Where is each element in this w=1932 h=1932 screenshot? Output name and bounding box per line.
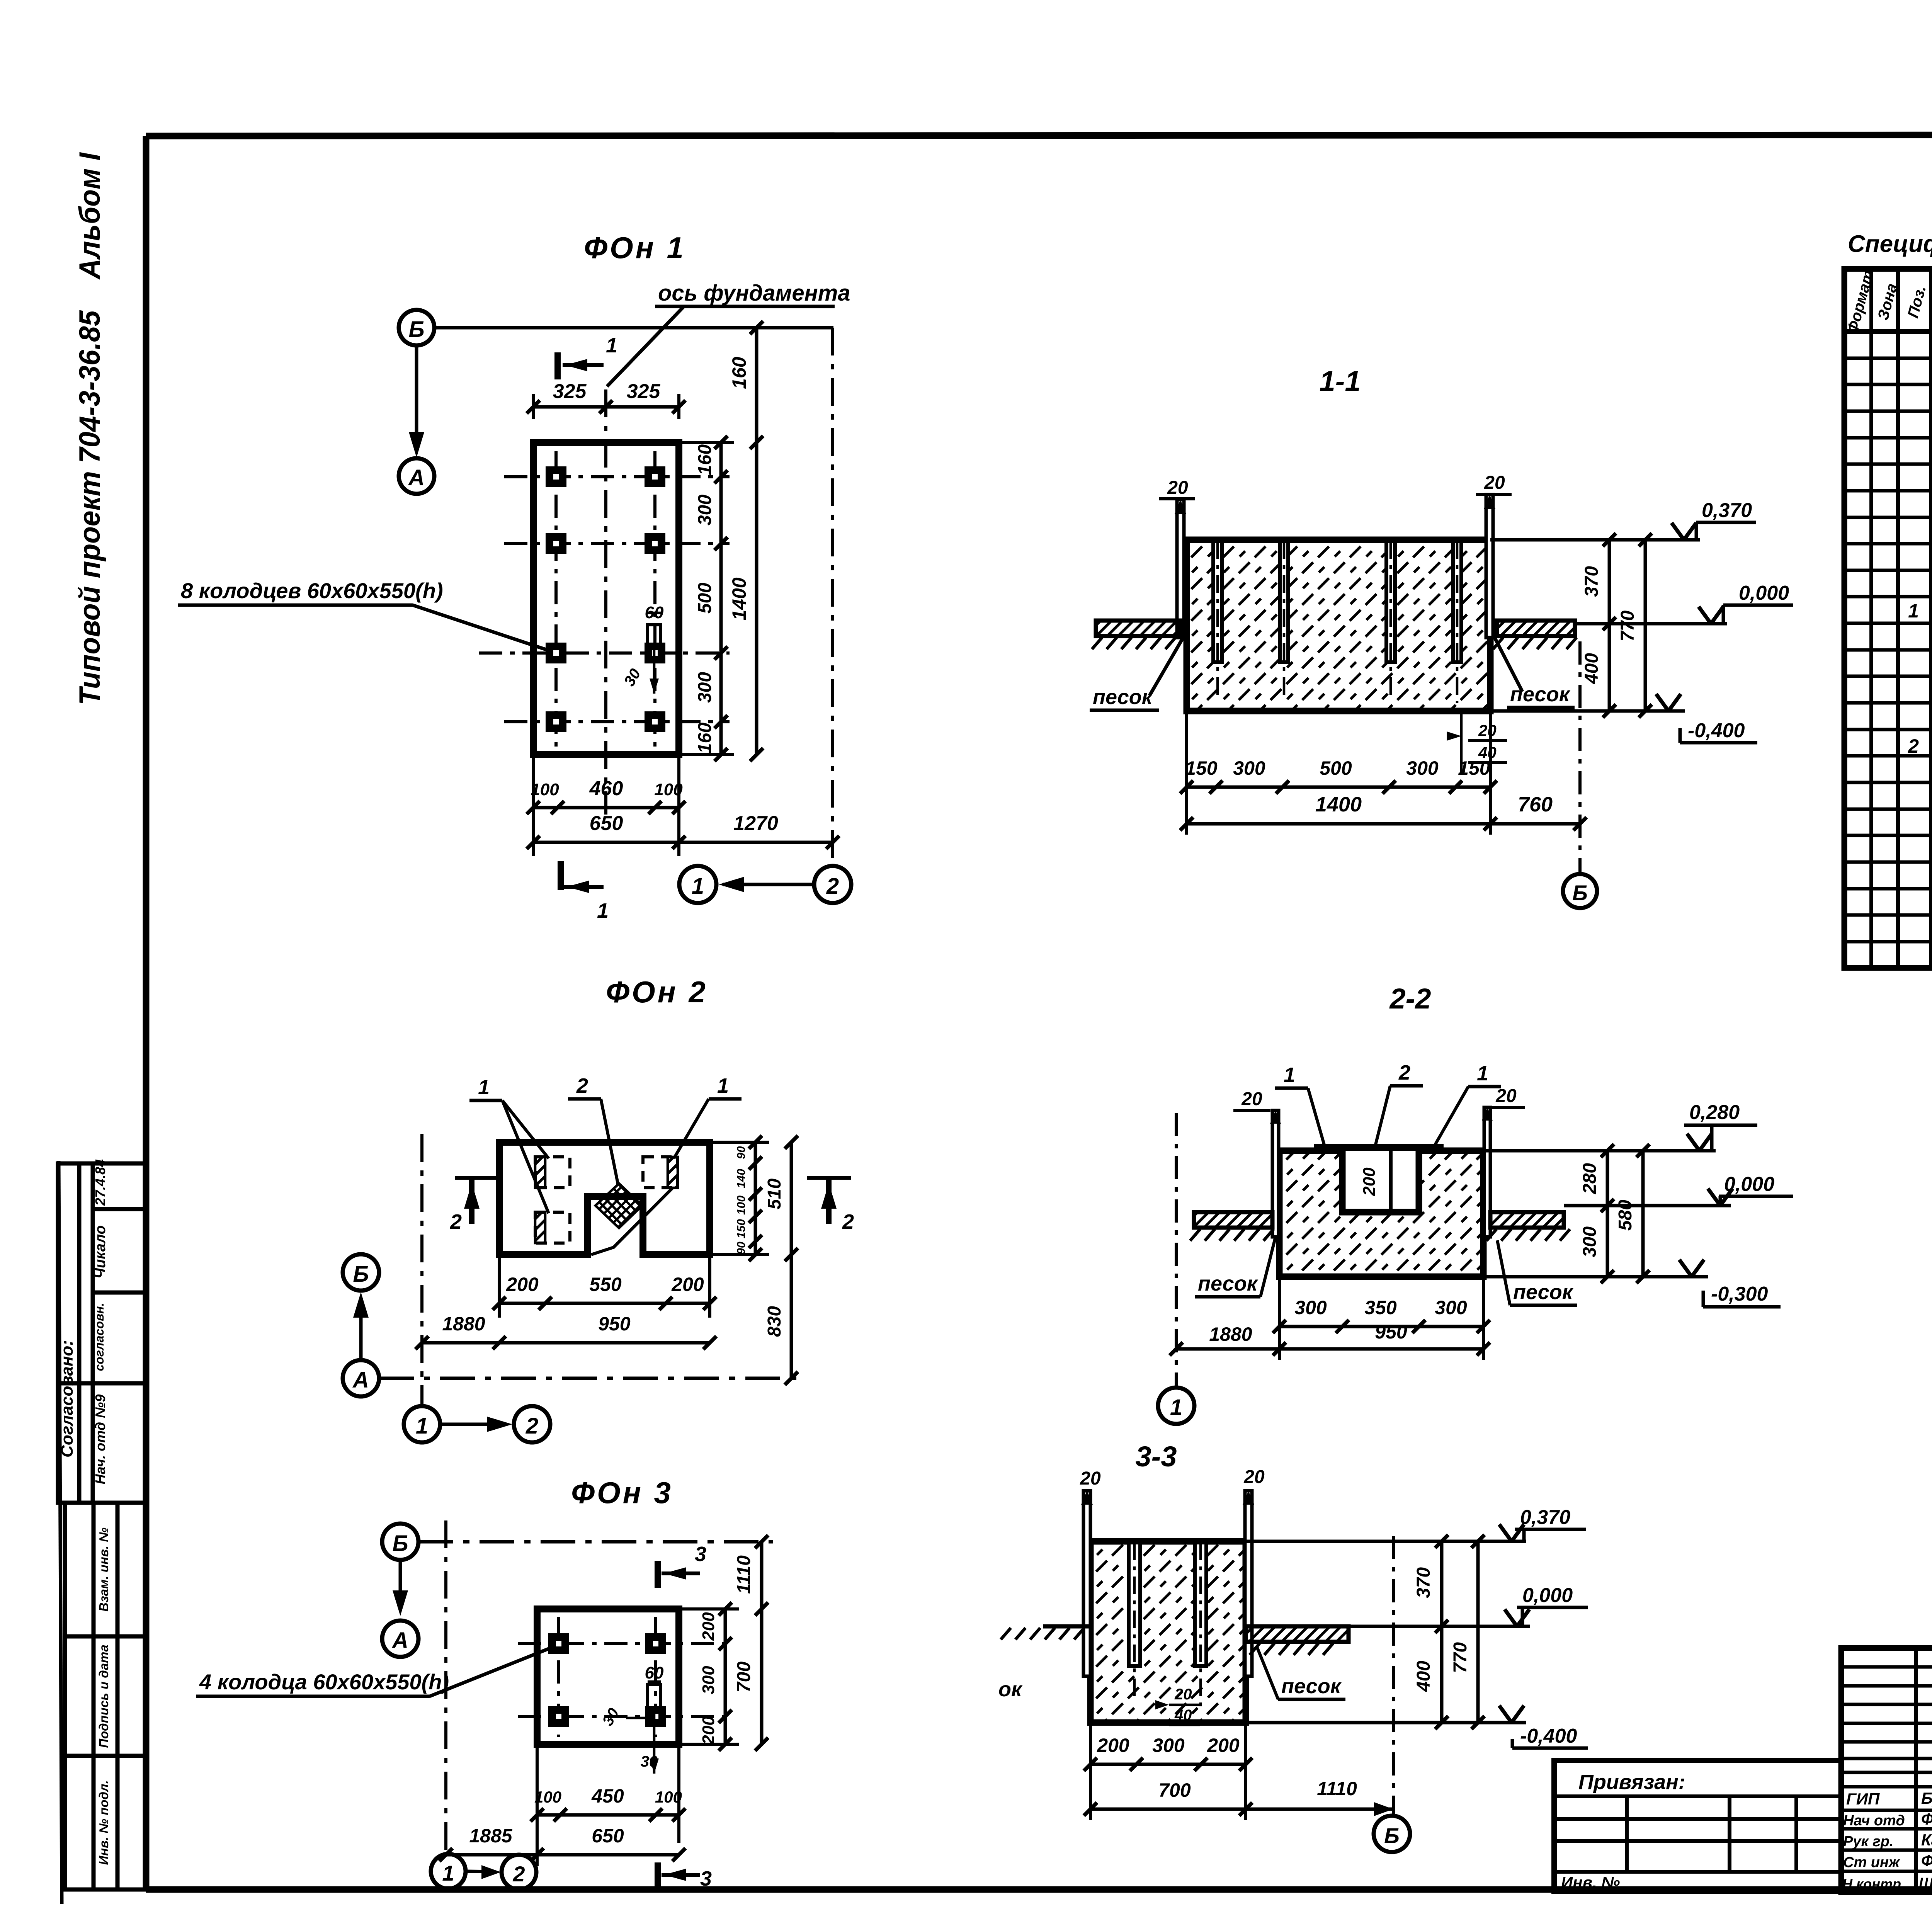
right outer dim chain 160/1400: [755, 328, 759, 755]
svg-text:Согласовано:: Согласовано:: [58, 1340, 77, 1458]
svg-text:Рук гр.: Рук гр.: [1843, 1833, 1893, 1850]
svg-text:2-2: 2-2: [1389, 983, 1431, 1015]
svg-text:140: 140: [735, 1169, 748, 1188]
svg-text:2: 2: [512, 1862, 525, 1886]
svg-text:300: 300: [1233, 757, 1265, 779]
svg-text:2: 2: [450, 1210, 462, 1233]
svg-text:Инв. №: Инв. №: [1561, 1873, 1620, 1891]
left ground platform slab: [1194, 1212, 1272, 1228]
svg-text:Ст инж: Ст инж: [1843, 1854, 1900, 1871]
axis circle 2: [502, 1855, 536, 1889]
svg-text:280: 280: [1580, 1163, 1600, 1194]
svg-text:0,370: 0,370: [1520, 1506, 1570, 1529]
svg-text:ФОн 1: ФОн 1: [584, 231, 686, 265]
level line 0.000: [1349, 1625, 1530, 1628]
bottom dim 1880/950: [1176, 1347, 1483, 1351]
spec table grid: [1844, 269, 1932, 968]
left embedded pin: [1272, 1111, 1279, 1237]
svg-text:песок: песок: [1281, 1675, 1342, 1698]
axis circle 1: [404, 1406, 440, 1442]
svg-text:150: 150: [735, 1219, 748, 1238]
bottom dim 650/1270: [533, 841, 833, 844]
right embedded pin: [1245, 1491, 1252, 1676]
axis B horizontal dash-dot: [418, 1540, 773, 1544]
svg-text:1: 1: [1284, 1063, 1295, 1087]
right ground platform slab: [1490, 1212, 1564, 1228]
svg-text:ок: ок: [998, 1678, 1023, 1701]
dims 1880/950: [422, 1341, 710, 1345]
svg-text:100: 100: [735, 1196, 748, 1215]
svg-text:Б: Б: [392, 1531, 408, 1556]
svg-text:370: 370: [1413, 1567, 1434, 1598]
svg-text:ось фундамента: ось фундамента: [658, 281, 850, 306]
svg-text:950: 950: [598, 1313, 631, 1335]
svg-text:Б: Б: [408, 317, 424, 342]
left ground platform slab: [1096, 621, 1180, 636]
svg-text:200: 200: [1360, 1167, 1379, 1196]
svg-text:ФОн 3: ФОн 3: [571, 1476, 673, 1510]
svg-text:А: А: [391, 1628, 408, 1653]
svg-text:1110: 1110: [1317, 1778, 1357, 1799]
svg-text:1-1: 1-1: [1320, 365, 1361, 397]
axis B dash-dot and circle: [1392, 1536, 1395, 1815]
section mark 2 right: [807, 1176, 851, 1180]
arrow from 2 to 1: [723, 883, 814, 886]
svg-text:0,000: 0,000: [1522, 1584, 1573, 1607]
vertical dim chain 280/300: [1606, 1151, 1609, 1277]
concrete block hatched: [1187, 540, 1490, 711]
svg-text:200: 200: [699, 1612, 718, 1641]
svg-text:325: 325: [553, 380, 587, 403]
svg-text:550: 550: [589, 1274, 622, 1295]
svg-text:3: 3: [700, 1867, 712, 1890]
svg-text:300: 300: [695, 672, 715, 703]
level line 0.000: [1564, 1204, 1731, 1207]
svg-text:Типовой проект 704-3-36.85: Типовой проект 704-3-36.85 Альбом I: [73, 152, 106, 705]
level line 0.280: [1483, 1149, 1716, 1153]
right inner dim chain 160/300/500/300/160: [719, 442, 723, 755]
vertical dim chain 580: [1641, 1151, 1645, 1277]
svg-text:0,000: 0,000: [1739, 582, 1789, 604]
svg-text:песок: песок: [1510, 683, 1571, 706]
privyazan box: [1554, 1760, 1841, 1891]
svg-text:400: 400: [1413, 1661, 1434, 1692]
staff grid verticals: [1916, 1648, 1932, 1892]
svg-text:4 колодца 60х60х550(h): 4 колодца 60х60х550(h): [199, 1670, 449, 1694]
svg-text:400: 400: [1582, 653, 1602, 684]
level line -0.400: [1246, 1721, 1526, 1725]
svg-text:200: 200: [699, 1716, 718, 1745]
axis circle A: [343, 1360, 379, 1396]
svg-text:100: 100: [534, 1788, 561, 1806]
svg-text:ГИП: ГИП: [1846, 1790, 1880, 1808]
svg-text:90: 90: [735, 1146, 748, 1159]
svg-text:1400: 1400: [1315, 793, 1362, 816]
arrow from A up to B: [359, 1298, 363, 1360]
8 wells (black squares): [546, 466, 665, 732]
bottom dim 300/350/300: [1278, 1277, 1281, 1360]
svg-text:3: 3: [695, 1543, 706, 1566]
svg-text:150: 150: [1185, 757, 1218, 779]
svg-text:Подпись и дата: Подпись и дата: [97, 1645, 111, 1748]
svg-text:Бухаров: Бухаров: [1921, 1789, 1932, 1807]
right embedded pin: [1484, 1107, 1490, 1237]
svg-text:Нач. отд №9: Нач. отд №9: [92, 1395, 108, 1485]
4 wells: [548, 1633, 666, 1727]
axis circle 1: [431, 1854, 466, 1889]
svg-text:325: 325: [627, 380, 661, 403]
vertical dim chain 770: [1476, 1541, 1480, 1723]
svg-text:1: 1: [442, 1861, 454, 1885]
section mark 1 top: [554, 352, 561, 379]
svg-text:200: 200: [1097, 1735, 1129, 1756]
title block outer: [1841, 1648, 1932, 1892]
svg-text:песок: песок: [1093, 685, 1153, 709]
arrow from B down to A: [399, 1560, 402, 1609]
svg-text:760: 760: [1518, 793, 1553, 816]
svg-text:1880: 1880: [442, 1313, 485, 1335]
svg-text:0,280: 0,280: [1689, 1101, 1740, 1124]
left embedded pin: [1083, 1491, 1090, 1676]
svg-text:770: 770: [1617, 611, 1638, 641]
axis circle B: [382, 1524, 418, 1560]
cross-hatched pad center: [595, 1184, 642, 1228]
leader to axis: [607, 306, 684, 386]
svg-text:300: 300: [1580, 1226, 1600, 1257]
svg-text:1110: 1110: [734, 1555, 754, 1594]
axis circle B: [399, 310, 434, 345]
left anchor opening upper (dashed): [535, 1157, 570, 1188]
foundation plan outline FOn1: [533, 442, 679, 755]
svg-text:90: 90: [735, 1242, 748, 1255]
right inner dim chain 200/300/200: [724, 1609, 727, 1744]
svg-text:20: 20: [1484, 473, 1505, 493]
staff names: [1842, 1789, 1932, 1892]
bottom dim 100/450/100: [536, 1744, 539, 1866]
svg-text:100: 100: [655, 1788, 682, 1806]
svg-text:1270: 1270: [733, 812, 778, 835]
level line -0.400: [1490, 709, 1685, 713]
well dash-dot lines: [518, 1617, 734, 1737]
right outer dim chain 510/830: [790, 1142, 793, 1378]
svg-text:20: 20: [1495, 1086, 1517, 1106]
svg-text:А: А: [352, 1367, 369, 1393]
svg-text:150: 150: [1458, 757, 1490, 779]
svg-text:450: 450: [591, 1785, 624, 1807]
svg-text:ФОн 2: ФОн 2: [606, 975, 708, 1009]
svg-text:8 колодцев 60х60х550(h): 8 колодцев 60х60х550(h): [181, 578, 443, 603]
svg-text:1880: 1880: [1209, 1323, 1252, 1345]
svg-text:2: 2: [826, 874, 839, 899]
left stamp upper box rotated labels: [58, 1159, 109, 1484]
concrete block hatched: [1090, 1541, 1246, 1723]
top dimension 325+325: [533, 405, 679, 409]
axis 1 vertical dash-dot: [444, 1520, 447, 1851]
svg-text:160: 160: [695, 444, 715, 475]
vertical dim chain 770: [1644, 540, 1647, 711]
svg-text:770: 770: [1450, 1642, 1471, 1673]
axis circle A: [382, 1621, 418, 1657]
svg-text:1: 1: [1908, 600, 1919, 622]
svg-text:100: 100: [654, 780, 683, 799]
arrow from 1 to 2: [466, 1871, 495, 1872]
svg-text:Б: Б: [1384, 1823, 1400, 1848]
svg-text:300: 300: [1435, 1297, 1467, 1318]
small dims 20/40 at block bottom: [1460, 711, 1463, 773]
well slots: [1129, 1543, 1206, 1666]
bottom dim 200/300/200: [1089, 1723, 1092, 1820]
svg-text:200: 200: [1207, 1735, 1240, 1756]
svg-text:Штамбург: Штамбург: [1919, 1875, 1932, 1891]
left embedded pin: [1177, 500, 1184, 638]
svg-text:Б: Б: [353, 1262, 369, 1287]
svg-text:Спецификация фундаментов под о: Спецификация фундаментов под оборудовани…: [1848, 231, 1932, 257]
svg-text:1: 1: [478, 1076, 490, 1099]
svg-text:370: 370: [1582, 566, 1602, 597]
svg-text:1885: 1885: [469, 1825, 512, 1847]
svg-text:60: 60: [645, 1663, 664, 1682]
section mark 2 left: [455, 1176, 499, 1180]
left ground ledge: [1043, 1624, 1090, 1629]
section mark 1 bottom: [558, 861, 564, 890]
axis 1 vertical dash-dot: [420, 1134, 423, 1405]
left trench slope: [1150, 638, 1183, 696]
level line 0.370: [1246, 1540, 1526, 1543]
svg-text:700: 700: [1158, 1779, 1191, 1801]
svg-text:2: 2: [576, 1074, 588, 1097]
axis A horizontal dash-dot: [379, 1377, 803, 1380]
notch inner vertical line: [1389, 1151, 1393, 1212]
axis 2 vertical dash-dot: [831, 328, 834, 865]
svg-text:0,370: 0,370: [1702, 499, 1752, 522]
svg-text:Нач отд: Нач отд: [1843, 1813, 1905, 1829]
well row dash-dot lines: [479, 477, 730, 722]
foundation axis centerline (os fundamenta): [604, 389, 607, 815]
svg-text:950: 950: [1375, 1321, 1407, 1343]
svg-text:1: 1: [692, 874, 704, 899]
svg-text:Взам. инв. №: Взам. инв. №: [97, 1527, 111, 1612]
arrow from B down to A: [415, 346, 418, 451]
bottom dim 700/1110: [1090, 1808, 1393, 1811]
svg-text:300: 300: [1406, 757, 1439, 779]
axis circle 1 bottom: [679, 866, 716, 903]
svg-text:2: 2: [1908, 735, 1919, 757]
svg-text:2: 2: [842, 1210, 854, 1233]
svg-text:0,000: 0,000: [1724, 1173, 1774, 1196]
svg-text:200: 200: [506, 1274, 539, 1295]
svg-text:510: 510: [764, 1179, 785, 1209]
well column dash-dot lines: [554, 451, 558, 748]
axis 1 dash-dot and circle: [1175, 1113, 1178, 1387]
svg-text:20: 20: [1174, 1686, 1192, 1703]
bottom dim chain 1400/760: [1187, 822, 1580, 826]
bottom dim chain 150/300/500/300/150: [1185, 711, 1188, 835]
svg-text:300: 300: [1294, 1297, 1327, 1318]
foundation outline FOn2 with notch: [499, 1142, 710, 1255]
svg-text:700: 700: [734, 1662, 754, 1692]
left sheet trim edge line: [59, 1161, 62, 1904]
svg-text:20: 20: [1167, 478, 1188, 498]
svg-text:300: 300: [1152, 1735, 1185, 1756]
svg-text:А: А: [408, 465, 425, 490]
svg-text:-0,400: -0,400: [1520, 1725, 1577, 1747]
section mark 3 top: [655, 1561, 661, 1588]
level line -0.300: [1483, 1275, 1708, 1279]
svg-text:песок: песок: [1513, 1281, 1574, 1304]
level line 0.000: [1575, 622, 1727, 626]
axis circle 2 bottom: [814, 866, 851, 903]
leader polyline to lower right anchor: [591, 1188, 672, 1255]
vertical dim chain 370/400: [1440, 1541, 1444, 1723]
staff grid thin rows: [1841, 1667, 1932, 1871]
svg-text:1: 1: [1170, 1395, 1182, 1420]
svg-text:1: 1: [416, 1413, 428, 1439]
well slots in section: [1213, 541, 1461, 662]
svg-text:1: 1: [1477, 1062, 1488, 1085]
svg-text:20: 20: [1478, 721, 1497, 740]
svg-text:650: 650: [592, 1825, 624, 1847]
axis circle 2: [514, 1406, 550, 1442]
svg-text:Калинин: Калинин: [1921, 1831, 1932, 1849]
left stamp upper box: [58, 1163, 146, 1503]
svg-text:2: 2: [1398, 1061, 1410, 1084]
svg-text:-0,400: -0,400: [1688, 719, 1745, 742]
right ground platform slab: [1497, 621, 1575, 636]
slot centerlines dash-dot: [1218, 541, 1457, 703]
left stamp lower box: [65, 1503, 146, 1889]
svg-text:580: 580: [1615, 1200, 1636, 1231]
svg-text:Фролов: Фролов: [1921, 1852, 1932, 1870]
svg-text:согласовн.: согласовн.: [92, 1303, 106, 1371]
svg-text:Фрид: Фрид: [1921, 1810, 1932, 1828]
concrete block hatched with notch: [1279, 1151, 1483, 1277]
axis circle B: [343, 1254, 379, 1291]
svg-text:20: 20: [1241, 1089, 1262, 1109]
bottom dim 1885/650: [446, 1853, 679, 1857]
right ground platform slab: [1246, 1626, 1349, 1642]
axis line B horizontal: [434, 326, 833, 330]
svg-text:300: 300: [699, 1666, 718, 1694]
svg-text:830: 830: [764, 1306, 785, 1337]
svg-text:1: 1: [597, 899, 609, 922]
svg-text:2: 2: [526, 1413, 538, 1439]
svg-text:27.4.84: 27.4.84: [92, 1159, 108, 1206]
svg-text:1: 1: [717, 1074, 729, 1097]
small 60x30 detail near center well: [648, 625, 661, 649]
svg-text:3-3: 3-3: [1136, 1440, 1177, 1473]
arrow from 1 to 2: [441, 1423, 506, 1426]
svg-text:200: 200: [671, 1274, 704, 1295]
svg-text:40: 40: [1174, 1707, 1192, 1724]
svg-text:650: 650: [590, 812, 623, 835]
svg-text:Чикало: Чикало: [92, 1225, 109, 1279]
slot centerlines: [1134, 1543, 1201, 1708]
svg-text:500: 500: [1320, 757, 1352, 779]
axis B dash-dot and circle: [1578, 641, 1582, 873]
left stamp lower box rotated labels: [97, 1527, 111, 1865]
right inner dim chain: [754, 1142, 757, 1255]
svg-text:песок: песок: [1198, 1272, 1259, 1295]
svg-text:1400: 1400: [728, 577, 750, 620]
right anchor opening (dashed): [643, 1157, 678, 1188]
svg-text:Н.контр: Н.контр: [1842, 1876, 1901, 1892]
level line 0.370: [1490, 538, 1700, 542]
svg-text:20: 20: [1080, 1468, 1101, 1489]
right outer dim chain 1110/700: [760, 1542, 764, 1744]
svg-text:100: 100: [531, 780, 559, 799]
svg-text:Привязан:: Привязан:: [1578, 1770, 1685, 1794]
svg-text:160: 160: [728, 357, 750, 389]
svg-text:1: 1: [606, 334, 617, 357]
svg-text:20: 20: [1243, 1467, 1265, 1487]
svg-text:-0,300: -0,300: [1711, 1283, 1768, 1305]
svg-text:Инв. № подл.: Инв. № подл.: [97, 1780, 111, 1865]
svg-text:460: 460: [589, 777, 623, 800]
section mark 3 bottom: [655, 1862, 661, 1886]
dims 200/550/200: [498, 1255, 501, 1318]
svg-text:300: 300: [695, 495, 715, 526]
svg-text:350: 350: [1364, 1297, 1397, 1318]
right embedded pin: [1486, 495, 1493, 638]
bottom dim 100/460/100: [532, 755, 535, 856]
foundation plan outline FOn3: [537, 1609, 679, 1744]
axis circle A: [399, 458, 434, 494]
svg-text:Б: Б: [1572, 881, 1588, 905]
embedded steel plate on top: [1314, 1144, 1444, 1151]
svg-text:500: 500: [695, 583, 715, 614]
left anchor opening lower (dashed): [535, 1212, 570, 1243]
vertical dim chain 370/400: [1608, 540, 1611, 711]
small 60/30 detail: [648, 1685, 661, 1708]
svg-text:160: 160: [695, 723, 715, 753]
